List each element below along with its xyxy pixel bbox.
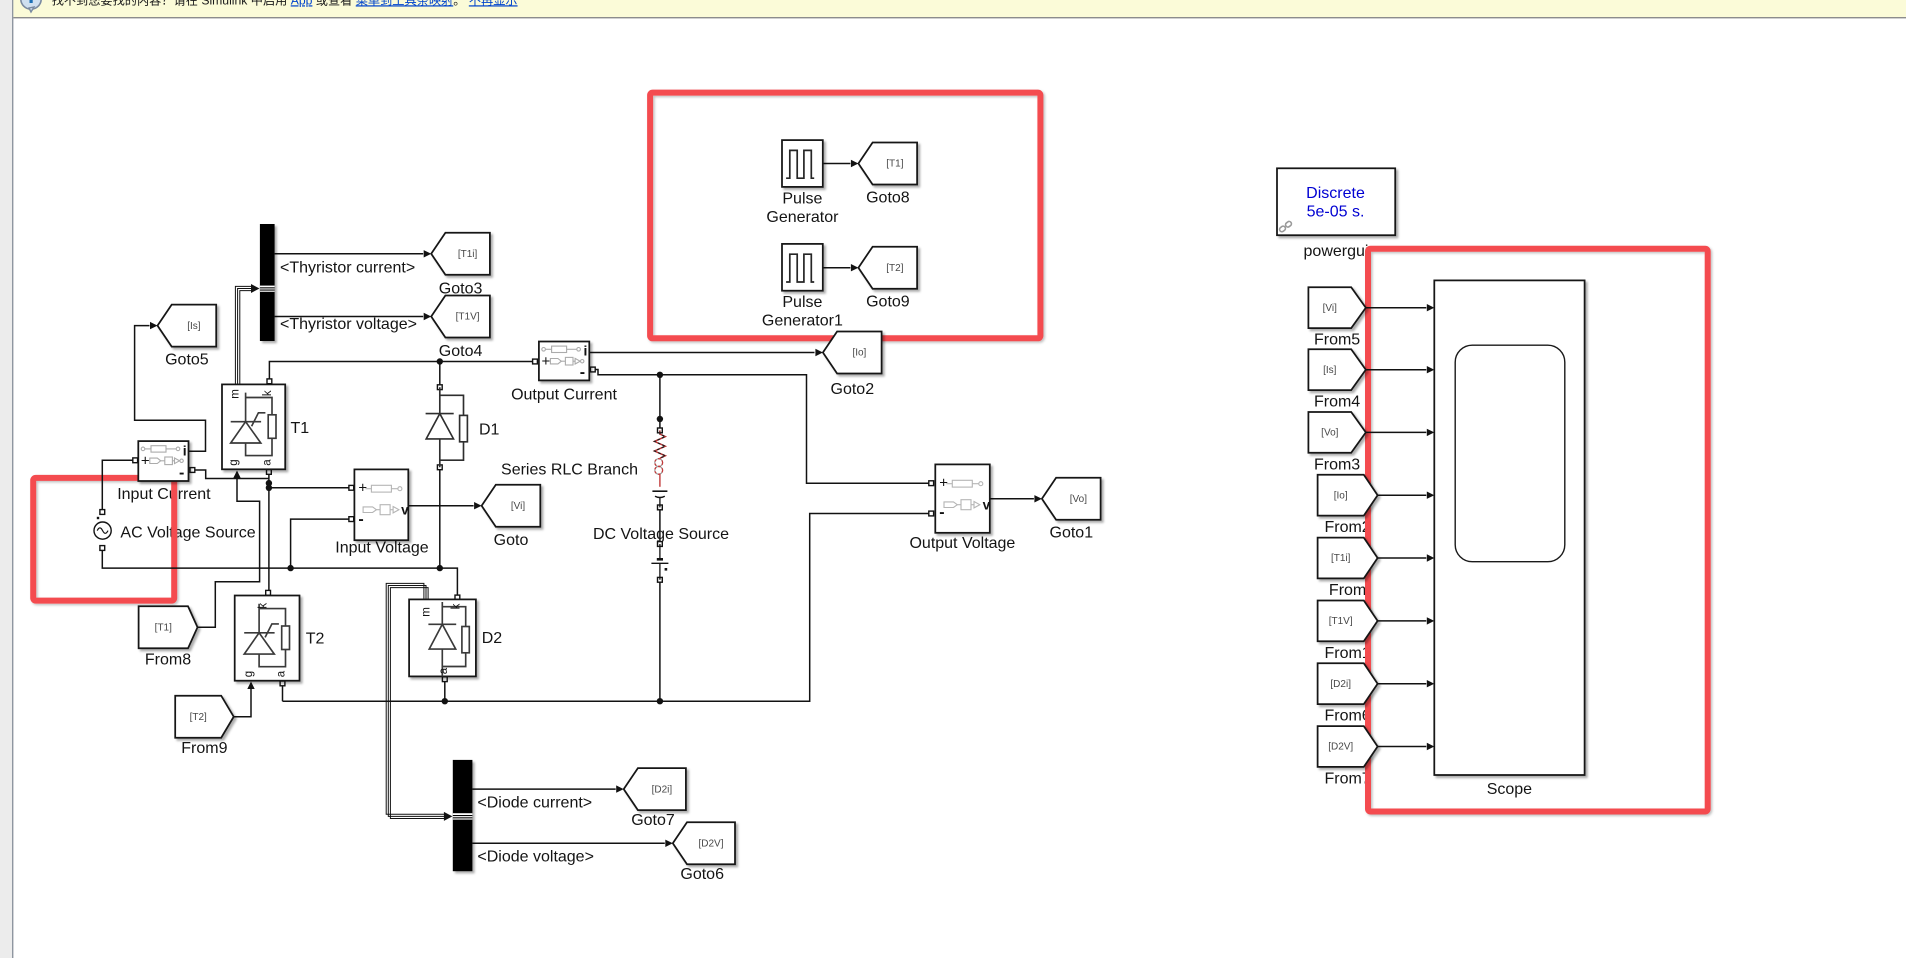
from From ([T1i]) [1318, 538, 1378, 579]
svg-text:Goto8: Goto8 [866, 189, 910, 206]
svg-text:<Diode current>: <Diode current> [477, 795, 592, 812]
wire D2 a to rail [444, 681, 446, 701]
svg-text:From3: From3 [1314, 456, 1360, 473]
bus selector 1 (thyristor measurements) [260, 224, 275, 341]
svg-text:[T1V]: [T1V] [1329, 616, 1353, 627]
wire RLC branch top [659, 375, 661, 428]
goto Goto8 ([T1]) [858, 143, 917, 185]
svg-text:[D2V]: [D2V] [1328, 742, 1353, 753]
from From2 ([Io]) [1318, 475, 1378, 516]
from From9 ([T2]) [175, 696, 234, 738]
wire From8 to T1 gate [198, 478, 260, 628]
thyristor T2 [235, 596, 300, 681]
svg-text:-: - [580, 364, 585, 381]
from From4 ([Is]) [1308, 349, 1365, 390]
from From1 ([T1V]) [1318, 601, 1378, 642]
svg-text:[T2]: [T2] [886, 263, 903, 274]
bus D2 m to bus selector 2 [386, 583, 445, 814]
svg-text:+: + [939, 475, 948, 492]
svg-text:m: m [421, 607, 433, 617]
svg-text:From5: From5 [1314, 332, 1360, 349]
svg-text:D2: D2 [482, 630, 503, 647]
svg-text:k: k [258, 603, 270, 609]
svg-text:+: + [542, 353, 551, 370]
wire bus2 out2 to Goto6 [472, 842, 664, 844]
Pulse Generator [782, 140, 823, 187]
svg-text:[Io]: [Io] [1334, 490, 1348, 501]
junction RLC top [657, 372, 663, 378]
diode D2 [409, 599, 476, 676]
svg-text:v: v [401, 502, 409, 517]
wire T1 a to T2 k (node A) [268, 472, 270, 590]
svg-text:<Thyristor current>: <Thyristor current> [280, 260, 415, 277]
svg-text:[Vo]: [Vo] [1321, 428, 1338, 439]
svg-text:[T1i]: [T1i] [1331, 553, 1351, 564]
svg-text:From4: From4 [1314, 394, 1360, 411]
notification bar [13, 0, 1906, 17]
svg-text:找不到您要找的内容？请在 Simulink 中启用 App: 找不到您要找的内容？请在 Simulink 中启用 App 或查看 菜单到工具条… [52, 0, 518, 7]
goto Goto5 ([Is]) [158, 305, 217, 347]
wire T2 a to rail [282, 686, 284, 702]
svg-text:g: g [243, 671, 255, 677]
svg-text:Goto9: Goto9 [866, 294, 910, 311]
Output Current (current measurement) [539, 342, 589, 381]
AC Voltage Source [94, 517, 111, 539]
goto Goto3 ([T1i]) [431, 233, 490, 275]
wire Input Current i to Goto5 [135, 326, 206, 452]
svg-text:5e-05 s.: 5e-05 s. [1307, 203, 1365, 220]
annotation box around scope [1368, 249, 1708, 812]
svg-text:[Vi]: [Vi] [511, 501, 525, 512]
svg-text:m: m [230, 389, 242, 399]
svg-text:Scope: Scope [1487, 781, 1532, 798]
scope block [1434, 280, 1584, 775]
wire node A to Input Voltage + [269, 487, 350, 489]
svg-text:[Io]: [Io] [852, 348, 866, 359]
svg-text:Goto1: Goto1 [1050, 525, 1094, 542]
wire From9 to T2 gate [234, 689, 251, 717]
wire AC+ to Input Current + [102, 460, 133, 512]
svg-text:Goto5: Goto5 [165, 352, 209, 369]
svg-text:-: - [939, 504, 944, 521]
svg-text:Input Voltage: Input Voltage [335, 540, 429, 557]
DC voltage source (battery) [651, 544, 668, 580]
svg-text:-: - [179, 465, 184, 482]
svg-text:From1: From1 [1324, 645, 1370, 662]
svg-text:[D2i]: [D2i] [1330, 679, 1351, 690]
wire D1 bottom to rail [439, 470, 441, 568]
svg-text:Goto6: Goto6 [680, 866, 724, 883]
wires From row to Scope [1366, 307, 1427, 309]
svg-text:[Is]: [Is] [1323, 365, 1337, 376]
svg-text:Output Current: Output Current [511, 386, 617, 403]
Pulse Generator1 [782, 244, 823, 291]
wire D1 top stub [439, 362, 441, 385]
thyristor T1 [222, 384, 285, 469]
svg-text:Goto: Goto [494, 532, 529, 549]
svg-text:From2: From2 [1324, 519, 1370, 536]
junction node A [266, 480, 272, 486]
bus selector 2 (diode measurements) [453, 760, 473, 871]
from From8 ([T1]) [139, 606, 198, 648]
svg-text:T2: T2 [306, 631, 325, 648]
wire bus2 out1 to Goto7 [472, 788, 615, 790]
svg-text:i: i [584, 343, 588, 359]
svg-text:v: v [983, 497, 991, 512]
goto Goto2 ([Io]) [823, 332, 882, 374]
svg-text:From9: From9 [181, 740, 227, 757]
left panel strip [0, 0, 12, 958]
svg-text:a: a [276, 670, 288, 677]
wire Input Voltage v to Goto [408, 505, 473, 507]
svg-text:[T2]: [T2] [190, 712, 207, 723]
svg-text:+: + [358, 480, 367, 497]
svg-text:-: - [358, 511, 363, 528]
svg-text:k: k [450, 603, 462, 609]
wire RLC bottom to DC source [659, 510, 661, 542]
svg-text:From6: From6 [1324, 708, 1370, 725]
from From7 ([D2V]) [1318, 726, 1378, 767]
wire Pulse Generator1 to Goto9 [823, 267, 851, 269]
junction rail DC [657, 698, 663, 704]
svg-text:[Vi]: [Vi] [1323, 303, 1337, 314]
junction D1 bottom [437, 565, 443, 571]
svg-text:Goto7: Goto7 [631, 812, 675, 829]
svg-text:[T1]: [T1] [155, 623, 172, 634]
svg-text:Pulse: Pulse [782, 191, 822, 208]
svg-text:From7: From7 [1324, 771, 1370, 788]
svg-text:Goto4: Goto4 [439, 343, 483, 360]
svg-text:g: g [228, 459, 240, 465]
svg-text:[D2V]: [D2V] [698, 839, 723, 850]
notification icon (speech bubble) [21, 0, 41, 12]
powergui block [1277, 168, 1395, 235]
svg-text:[T1]: [T1] [886, 159, 903, 170]
svg-text:a: a [262, 459, 274, 466]
wire bus1 out2 to Goto4 [275, 316, 424, 318]
wire Output Current - to Output Voltage + [593, 370, 931, 484]
bottom rail [283, 514, 931, 702]
goto Goto ([Vi]) [482, 485, 541, 527]
wire Input Current - to node A [191, 470, 269, 479]
Input Voltage (voltage measurement) [354, 469, 409, 540]
goto Goto6 ([D2V]) [673, 822, 735, 864]
annotation box around pulse generators [650, 93, 1040, 339]
wire Pulse Generator to Goto8 [823, 163, 851, 165]
svg-text:AC Voltage Source: AC Voltage Source [120, 524, 255, 541]
annotation box around AC voltage source [33, 478, 174, 601]
svg-text:[Vo]: [Vo] [1070, 494, 1087, 505]
wire Output Voltage v to Goto1 [990, 498, 1034, 500]
wire Output Current i to Goto2 [589, 352, 814, 354]
svg-text:k: k [262, 390, 274, 396]
junction D1 top [437, 358, 443, 364]
diode D1 [426, 387, 468, 467]
junction rail D2 [442, 698, 448, 704]
svg-text:[T1V]: [T1V] [456, 312, 480, 323]
junction node B [287, 565, 293, 571]
svg-text:+: + [141, 453, 150, 470]
svg-text:powergui: powergui [1304, 243, 1369, 260]
goto Goto7 ([D2i]) [624, 768, 686, 810]
svg-text:Input Current: Input Current [117, 486, 211, 503]
svg-text:a: a [438, 667, 450, 674]
wire AC- bottom rail to D2 k [102, 548, 457, 595]
svg-text:Pulse: Pulse [782, 294, 822, 311]
Output Voltage (voltage measurement) [935, 464, 990, 532]
Input Current (current measurement) [138, 441, 188, 481]
wire node B to Input Voltage - [291, 519, 350, 568]
svg-text:Output Voltage: Output Voltage [909, 535, 1015, 552]
from From3 ([Vo]) [1308, 412, 1365, 453]
goto Goto1 ([Vo]) [1042, 478, 1101, 520]
svg-text:Goto2: Goto2 [831, 381, 875, 398]
goto Goto4 ([T1V]) [431, 296, 490, 338]
svg-text:Discrete: Discrete [1306, 185, 1365, 202]
svg-text:D1: D1 [479, 421, 500, 438]
svg-text:Series RLC Branch: Series RLC Branch [501, 461, 638, 478]
svg-text:<Thyristor voltage>: <Thyristor voltage> [280, 316, 417, 333]
series RLC branch (highlighted) [652, 430, 667, 507]
svg-text:From: From [1329, 582, 1366, 599]
goto Goto9 ([T2]) [858, 247, 917, 289]
svg-text:From8: From8 [145, 652, 191, 669]
svg-text:Generator1: Generator1 [762, 313, 843, 330]
svg-text:<Diode voltage>: <Diode voltage> [477, 849, 594, 866]
svg-text:[D2i]: [D2i] [652, 784, 673, 795]
wire DC source to bottom rail [659, 582, 661, 701]
svg-text:DC Voltage Source: DC Voltage Source [593, 526, 729, 543]
bus T1 m to bus selector 1 [235, 286, 252, 384]
wire bus1 out1 to Goto3 [275, 253, 424, 255]
from From6 ([D2i]) [1318, 663, 1378, 704]
svg-text:i: i [183, 442, 187, 458]
svg-text:T1: T1 [291, 420, 310, 437]
svg-text:[T1i]: [T1i] [458, 249, 478, 260]
wire T1 k to Output Current + [269, 362, 534, 380]
svg-text:[Is]: [Is] [187, 321, 201, 332]
svg-text:Generator: Generator [766, 209, 839, 226]
from From5 ([Vi]) [1308, 287, 1365, 328]
